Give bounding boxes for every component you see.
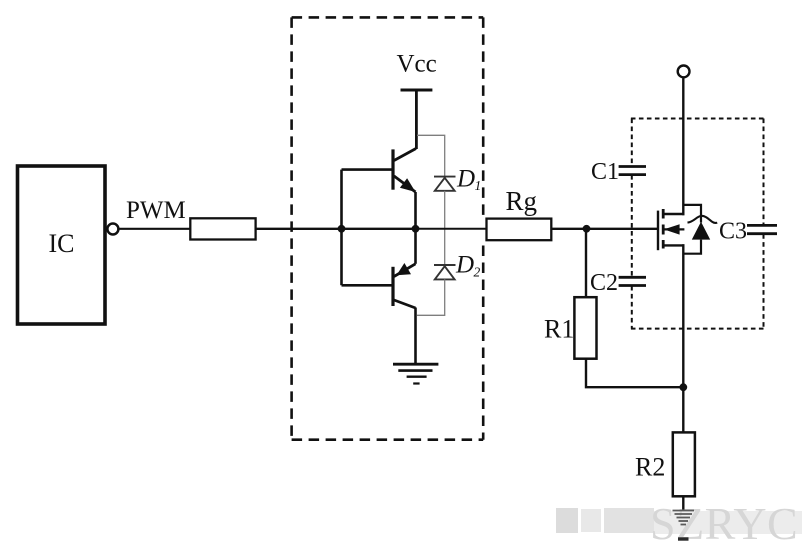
wire node B to Rg (416, 228, 488, 230)
transistor Q2 (PNP) (393, 263, 416, 308)
wire R2 to ground (682, 496, 684, 509)
Q3 drain stub (663, 213, 684, 215)
wire node B to Q2 emitter (414, 229, 417, 264)
wire source trunk lower (682, 244, 684, 432)
resistor series (unlabeled) (190, 218, 255, 239)
wire Q1 base (342, 168, 394, 171)
svg-text:IC: IC (49, 229, 75, 258)
transistor Q1 (NPN) (393, 149, 416, 193)
wire R1 to node D (586, 359, 683, 388)
svg-text:Vcc: Vcc (397, 51, 437, 78)
node D junction (679, 383, 687, 391)
wire thin D2 to Q2 collector (417, 279, 445, 315)
wire IC to series resistor (119, 228, 191, 230)
svg-text:Rg: Rg (506, 186, 538, 216)
wire drain trunk upper (682, 78, 684, 215)
wire node C down to R1 (585, 229, 587, 297)
svg-text:1: 1 (475, 178, 482, 193)
wire Rg to gate (552, 228, 658, 230)
wire base branch down to node A (340, 170, 343, 286)
node PWM output terminal (107, 224, 118, 235)
capacitor C3 (747, 225, 777, 233)
IC U1 box (18, 166, 106, 324)
mosfet parasitics dotted boundary (631, 119, 764, 329)
Q3 source stub (663, 244, 684, 246)
wire resistor to node A (256, 228, 342, 230)
svg-text:C3: C3 (719, 219, 747, 245)
driver stage dashed boundary (292, 17, 484, 439)
wire thin Q1 collector to D1 (417, 135, 445, 176)
Q3 channel tick source (662, 240, 665, 249)
svg-text:PWM: PWM (126, 197, 186, 224)
resistor R2 (673, 432, 695, 496)
svg-text:C1: C1 (591, 159, 619, 185)
Q3 body stub with arrow (664, 228, 685, 230)
body diode to source wire (683, 240, 701, 254)
svg-text:C2: C2 (590, 270, 618, 296)
node A junction (338, 225, 346, 233)
wire Q2 collector to ground (414, 308, 417, 365)
wire Vcc to Q1 collector (415, 90, 418, 149)
wire thin D1 to D2 (444, 191, 446, 265)
svg-text:R1: R1 (544, 315, 574, 344)
watermark blocks (556, 508, 578, 533)
body diode branch wire (683, 205, 701, 223)
wire Q1 emitter to node B (414, 192, 417, 229)
Vcc rail symbol (401, 89, 433, 92)
Q3 channel tick drain (662, 209, 665, 219)
svg-text:D: D (456, 166, 475, 193)
wire Q2 base (342, 284, 394, 287)
Q3 channel tick body (662, 225, 665, 235)
diode D1 (434, 177, 456, 191)
svg-text:D: D (455, 252, 474, 279)
resistor Rg (487, 219, 552, 241)
ground (output) (673, 511, 695, 525)
transistor Q3 (MOSFET) gate bar (657, 211, 659, 251)
wire node A to node B (342, 228, 416, 230)
ground (driver stage) (393, 364, 438, 383)
resistor R1 (574, 297, 596, 359)
capacitor C1 (619, 167, 646, 175)
svg-text:R2: R2 (635, 453, 665, 482)
svg-text:2: 2 (474, 265, 481, 280)
body diode cathode curve (688, 216, 718, 223)
node C junction (583, 225, 591, 233)
drain supply terminal (678, 66, 690, 78)
node B junction (412, 225, 420, 233)
ground (output) bottom dash (678, 537, 689, 540)
svg-text:SZRYC: SZRYC (650, 498, 798, 549)
diode D2 (434, 265, 456, 279)
capacitor C2 (619, 277, 646, 285)
body diode (692, 222, 710, 240)
